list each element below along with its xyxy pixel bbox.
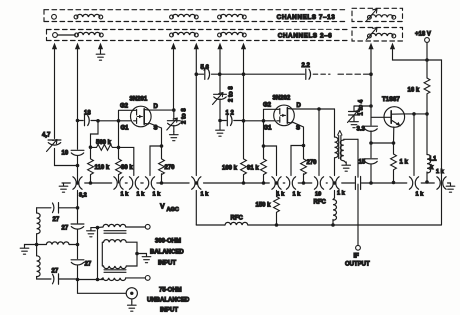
capacitor 18 — [78, 111, 99, 126]
terminal +18 V — [415, 32, 431, 43]
wire contact to coil row2 — [58, 34, 76, 36]
transformer balun bottom winding — [101, 278, 145, 281]
switch contact row2 — [53, 33, 58, 38]
trimmer capacitor 2 to 8 (stage2) — [213, 86, 235, 105]
ground left column — [20, 245, 36, 255]
terminal IF output — [345, 245, 370, 267]
node drain x319 — [317, 107, 321, 111]
svg-text:CHANNELS 7–13: CHANNELS 7–13 — [277, 14, 336, 21]
trimmer capacitor 1 to 4 — [348, 99, 372, 128]
svg-text:27: 27 — [52, 269, 59, 275]
feedthrough capacitor 1k (30k leg) — [114, 177, 129, 198]
svg-text:G2: G2 — [120, 104, 129, 110]
svg-text:1 k: 1 k — [293, 192, 302, 198]
wire return line y224.6 — [196, 224, 441, 226]
wire balun feed — [78, 279, 104, 281]
feedthrough capacitor 10 (x319) — [314, 177, 323, 198]
ground balun top — [87, 228, 98, 237]
wire source hook s2 — [291, 146, 304, 176]
svg-text:INPUT: INPUT — [158, 261, 176, 267]
inductor RFC vertical — [314, 198, 337, 225]
connector 75 ohm coax — [126, 288, 137, 312]
arrow into band x371 — [368, 43, 373, 50]
svg-text:1 k: 1 k — [137, 192, 146, 198]
node cap18 junction — [76, 119, 80, 123]
svg-text:+18 V: +18 V — [415, 32, 431, 38]
wire G1 of 3N202 — [244, 120, 275, 122]
label CHANNELS 7-13 — [272, 11, 340, 21]
inductor L row2-c — [218, 32, 247, 36]
switch contact row1 — [52, 14, 57, 19]
resistor 100 k — [222, 159, 246, 183]
wire x319 to bus — [318, 109, 320, 176]
feedthrough capacitor 1k (collector leg) — [409, 177, 424, 198]
svg-text:UNBALANCED: UNBALANCED — [147, 298, 190, 304]
svg-text:27: 27 — [62, 226, 69, 232]
arrow into band x220 — [217, 43, 222, 50]
inductor L1 — [427, 114, 437, 182]
svg-text:1 k: 1 k — [277, 192, 286, 198]
svg-text:110 k: 110 k — [95, 165, 110, 171]
feedthrough capacitor 1k (right rail) — [436, 169, 446, 189]
svg-text:1 k: 1 k — [400, 160, 409, 166]
ground bus right end — [446, 183, 455, 192]
transformer balun core bottom — [104, 270, 126, 273]
arrow stub with ground x100 — [96, 43, 105, 61]
svg-text:75-OHM: 75-OHM — [159, 288, 182, 294]
band strip channels 7-13 dashed outline — [44, 10, 347, 41]
inductor L row2-b — [170, 32, 199, 36]
inductor input top — [37, 213, 41, 234]
box variable inductor row2 — [352, 28, 403, 42]
wire x414 to bus — [413, 114, 415, 176]
svg-text:2.2: 2.2 — [302, 63, 311, 69]
svg-text:10: 10 — [62, 151, 69, 157]
svg-text:1 to 4: 1 to 4 — [359, 99, 365, 115]
node 150k return — [275, 223, 279, 227]
wire band feed x173 — [173, 47, 175, 110]
capacitor 10 — [62, 150, 84, 156]
trimmer capacitor 4,7 — [42, 133, 61, 152]
node 91k top — [262, 144, 266, 148]
label CHANNELS 2-6 — [274, 30, 336, 40]
wire G2 rail of 3N201 — [119, 110, 134, 147]
svg-text:560 k: 560 k — [96, 140, 112, 146]
svg-text:5,6: 5,6 — [201, 65, 210, 71]
capacitor 27 b — [62, 224, 84, 232]
wire x196 long — [195, 47, 197, 225]
svg-text:D: D — [297, 103, 302, 109]
feedthrough capacitor 1k (source hook s2) — [286, 177, 301, 198]
node 91k bus — [262, 181, 266, 185]
node +18V split — [425, 58, 429, 62]
feedthrough capacitor 8,2 — [73, 177, 87, 199]
inductor L row2-a — [75, 32, 104, 36]
wire balun left vertical — [97, 228, 99, 280]
node x371 y143 — [369, 141, 373, 145]
svg-text:G1: G1 — [264, 126, 273, 132]
terminal wire +18V down — [426, 42, 428, 60]
feedthrough capacitor 1k (gate hook) — [129, 177, 145, 198]
svg-text:8,2: 8,2 — [79, 193, 87, 199]
feedthrough capacitor 1k (150k leg) — [272, 177, 285, 198]
node x219 y74 — [218, 72, 222, 76]
wire x243 long — [243, 47, 245, 159]
wire collector — [404, 113, 427, 115]
svg-text:V: V — [160, 204, 165, 211]
resistor 1 k emitter — [391, 154, 409, 183]
svg-text:3N201: 3N201 — [130, 97, 148, 103]
wire drain 3N201 — [149, 109, 174, 111]
node 560k left — [89, 145, 93, 149]
resistor 16 k — [408, 60, 430, 114]
variable inductor row2 — [367, 28, 396, 40]
node 560k right — [117, 146, 121, 150]
wire G2 rail of 3N202 — [264, 109, 278, 146]
node G2 rail crossing — [117, 119, 121, 123]
node RFC return — [331, 223, 335, 227]
svg-text:18: 18 — [84, 111, 91, 117]
arrow into band x78 — [75, 43, 80, 50]
arrow into band x196 — [194, 43, 199, 50]
wire G1 of 3N201 — [98, 120, 132, 122]
node balun top — [96, 226, 100, 230]
resistor 270 (stage2) — [301, 146, 318, 184]
node 270 s2 bus — [302, 181, 306, 185]
transformer T1 core — [338, 131, 342, 159]
svg-text:INPUT: INPUT — [160, 308, 178, 314]
arrow into band x173 — [171, 43, 176, 50]
node G wire — [96, 119, 100, 123]
feedthrough capacitor IF line — [355, 177, 360, 190]
node x371 y106 — [369, 104, 373, 108]
transistor 3N202 dual-gate MOSFET — [263, 96, 302, 132]
resistor 150 k — [256, 197, 280, 226]
transistor TIS87 — [382, 97, 405, 127]
capacitor 3.3 — [357, 126, 378, 132]
svg-text:30 k: 30 k — [121, 165, 133, 171]
label 300-OHM BALANCED INPUT — [150, 239, 184, 267]
svg-text:1 k: 1 k — [201, 192, 210, 198]
wire IF line — [357, 139, 359, 245]
svg-text:1 k: 1 k — [121, 192, 130, 198]
node left column mid — [35, 243, 39, 247]
svg-text:IF: IF — [354, 254, 360, 260]
node cap27a junction — [76, 206, 80, 210]
svg-text:27: 27 — [53, 217, 60, 223]
svg-text:150 k: 150 k — [256, 203, 272, 209]
node drain x173 — [172, 108, 176, 112]
svg-text:27: 27 — [85, 262, 92, 268]
svg-text:S: S — [296, 126, 300, 132]
capacitor 15 — [359, 159, 378, 166]
capacitor 5,6 — [196, 65, 219, 79]
inductor L row1-a — [74, 14, 103, 18]
svg-text:10: 10 — [315, 192, 321, 198]
svg-text:270: 270 — [307, 160, 318, 166]
svg-text:270: 270 — [165, 165, 176, 171]
ground balun centre tap — [137, 254, 151, 263]
svg-text:T1S87: T1S87 — [382, 97, 400, 103]
svg-text:4,7: 4,7 — [42, 133, 51, 139]
node 100k bus — [242, 181, 246, 185]
wire source 3N201 — [149, 123, 162, 146]
transformer balun core top — [104, 231, 126, 234]
resistor 30 k — [116, 147, 134, 183]
node balun left leg — [96, 278, 100, 282]
svg-text:100 k: 100 k — [222, 166, 238, 172]
inductor L row1-c — [218, 14, 247, 18]
capacitor 12 — [220, 111, 244, 126]
node G2 rail crossing s2 — [262, 119, 266, 123]
transformer balun top winding — [98, 224, 146, 227]
inductor input bottom — [37, 256, 41, 277]
feedthrough capacitor 1k (x196) — [192, 177, 209, 198]
svg-text:CHANNELS 2–6: CHANNELS 2–6 — [278, 33, 333, 40]
terminal 300 ohm bottom — [145, 276, 150, 281]
svg-text:3.3: 3.3 — [357, 127, 366, 133]
feedthrough capacitor 1k (source hook) — [145, 177, 161, 198]
node collector x427 — [425, 112, 429, 116]
capacitor 27 d — [52, 269, 78, 285]
node mid coil junction — [76, 243, 80, 247]
node balun centre tap — [135, 252, 139, 256]
transformer balun loop winding — [102, 240, 137, 269]
node source rail s2 — [302, 144, 306, 148]
svg-text:RFC: RFC — [314, 200, 327, 206]
wire +18V to band tap — [393, 47, 428, 60]
svg-text:3N202: 3N202 — [273, 96, 291, 102]
transformer T1 primary — [335, 109, 339, 198]
resistor 560 k — [91, 140, 119, 151]
resistor 91 k — [247, 146, 266, 183]
svg-text:1 k: 1 k — [416, 192, 425, 198]
wire x220 branch — [219, 47, 221, 121]
wire 560k staircase — [91, 121, 99, 147]
wire source 3N202 — [292, 122, 304, 146]
svg-text:D: D — [154, 104, 159, 110]
node x243 y74 — [242, 72, 246, 76]
ground below x220 — [216, 121, 225, 137]
node L1 bus — [425, 180, 429, 184]
svg-text:91 k: 91 k — [247, 166, 259, 172]
wire emitter down — [393, 127, 395, 154]
node collector x414 — [412, 112, 416, 116]
label 75-OHM UNBALANCED INPUT — [147, 288, 190, 314]
wire left column — [37, 208, 51, 279]
node 110k bus — [89, 181, 93, 185]
node x243 y120 — [242, 119, 246, 123]
wire drain 3N202 — [292, 108, 335, 110]
svg-text:L1: L1 — [430, 157, 438, 163]
svg-text:300-OHM: 300-OHM — [155, 239, 181, 245]
ground secondary — [342, 162, 351, 171]
wire source hook — [150, 146, 162, 176]
wire y74 node x371 — [369, 72, 373, 76]
node emitter y143 — [392, 141, 396, 145]
transformer T1 secondary — [340, 139, 358, 162]
label V AGC — [160, 204, 179, 214]
trimmer capacitor 2 to 8 (stage1) — [167, 108, 188, 141]
wire y74 to x243 — [220, 73, 244, 75]
inductor L row1-b — [170, 14, 199, 18]
transistor 3N201 dual-gate MOSFET — [120, 97, 159, 132]
svg-text:1 2: 1 2 — [226, 111, 235, 117]
node x54 join — [76, 164, 80, 168]
svg-text:1 k: 1 k — [337, 191, 346, 197]
node x371 bus — [369, 181, 373, 185]
svg-text:RFC: RFC — [231, 216, 244, 222]
variable inductor row1 — [367, 9, 396, 21]
wire emitter link — [371, 142, 394, 144]
capacitor 27 c — [71, 260, 92, 268]
svg-text:15: 15 — [359, 160, 366, 166]
node x196 y74 — [195, 72, 199, 76]
svg-text:16 k: 16 k — [408, 88, 420, 94]
ground bus left end — [59, 183, 68, 192]
wire +18V right rail — [427, 60, 442, 225]
wire gate hook s2 — [264, 146, 277, 197]
arrow into band x392 — [390, 43, 395, 50]
svg-text:OUTPUT: OUTPUT — [345, 262, 370, 268]
wire base TIS87 — [371, 116, 384, 118]
arrow into band x55 — [52, 43, 57, 50]
node transformer line junction — [76, 278, 80, 282]
svg-text:G2: G2 — [263, 103, 272, 109]
svg-text:2 to 8: 2 to 8 — [229, 86, 235, 102]
wire main column below bus — [78, 191, 127, 294]
svg-text:AGC: AGC — [167, 207, 179, 213]
wire main column x77 top — [77, 47, 79, 183]
svg-text:1 k: 1 k — [436, 169, 445, 175]
node 270 bus — [160, 181, 164, 185]
terminal 300 ohm top — [145, 224, 150, 229]
box variable inductor row1 — [352, 8, 403, 21]
svg-text:2 to 8: 2 to 8 — [182, 108, 188, 124]
arrow into band x243 — [241, 43, 246, 50]
resistor 110 k — [88, 147, 110, 183]
resistor 270 (stage1) — [159, 146, 176, 183]
capacitor 27 a — [37, 203, 78, 223]
svg-text:1 k: 1 k — [153, 192, 162, 198]
wire x371 branch — [370, 47, 372, 183]
capacitor 2.2 — [244, 63, 372, 79]
inductor RFC horizontal — [225, 216, 248, 226]
node x220 y120 — [218, 119, 222, 123]
svg-text:BALANCED: BALANCED — [150, 250, 184, 256]
inductor input mid — [37, 242, 78, 245]
feedthrough capacitor 1k (T1 primary leg) — [330, 177, 346, 197]
node emitter bus — [392, 181, 396, 185]
wire antenna column x54 — [55, 47, 77, 166]
AGC bus line — [62, 182, 451, 184]
svg-text:G1: G1 — [121, 126, 130, 132]
wire gate hook — [119, 147, 134, 175]
node source rail — [160, 144, 164, 148]
